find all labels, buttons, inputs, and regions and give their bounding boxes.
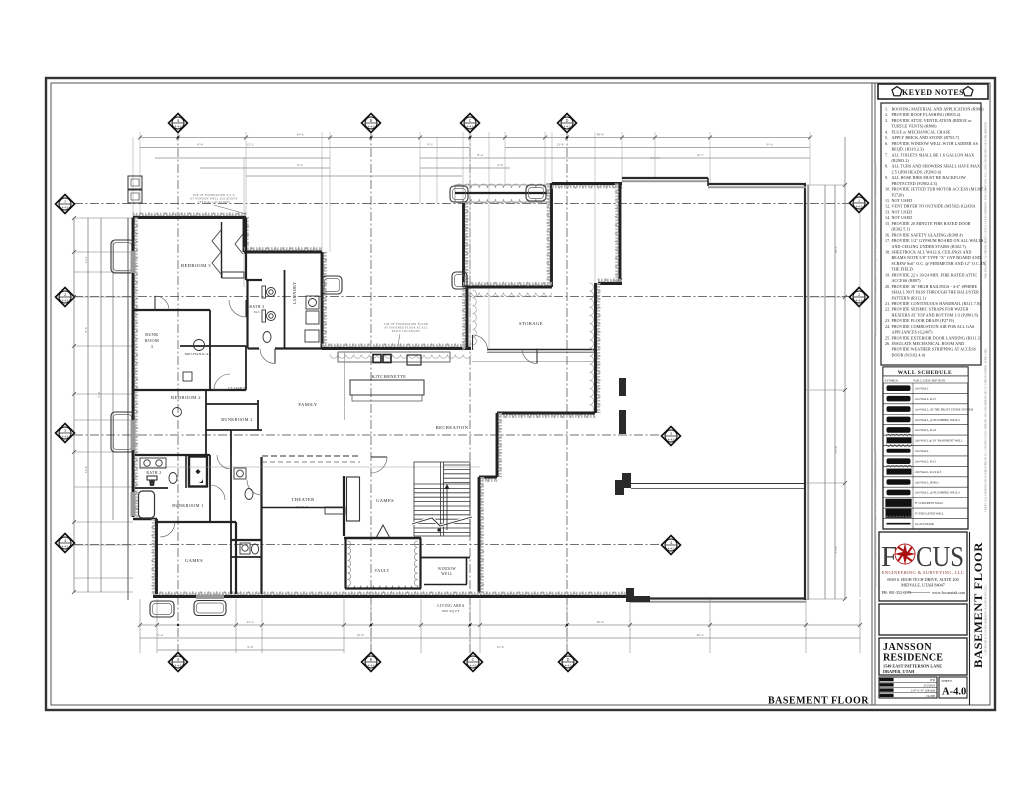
svg-text:2: 2: [858, 293, 860, 297]
svg-text:2x4 WALL: 2x4 WALL: [915, 449, 929, 453]
svg-text:25.: 25.: [885, 335, 890, 340]
svg-text:8" CONCRETE WALL: 8" CONCRETE WALL: [915, 501, 944, 505]
svg-text:INSULATE MECHANICAL ROOM AND: INSULATE MECHANICAL ROOM AND: [892, 341, 965, 346]
svg-text:KEYED NOTES: KEYED NOTES: [902, 88, 964, 97]
laundry fixtures washer dryer: [305, 296, 319, 342]
svg-text:10'-7: 10'-7: [697, 153, 704, 157]
interior bearing wall segments: [619, 378, 626, 396]
sheet outer border frame: [46, 78, 995, 710]
svg-text:3: 3: [670, 432, 672, 436]
wall: hall south: [231, 539, 262, 541]
wall: bedroom3/laundry divider: [245, 218, 247, 281]
svg-text:2.5 GPM HEADS. (P2903.6): 2.5 GPM HEADS. (P2903.6): [892, 169, 942, 174]
wall: laundry north (insulated): [244, 247, 322, 251]
svg-text:SHEET: SHEET: [942, 679, 953, 683]
wall: window well south: [424, 584, 467, 586]
wall: bedroom3 south / bunkroom3 north: [133, 309, 210, 311]
wall: bath2 shower west: [185, 455, 187, 488]
wall: stairs east: [480, 477, 484, 593]
svg-text:4-4.0: 4-4.0: [564, 124, 571, 128]
wall: NE room east: [615, 184, 619, 284]
window games south: [196, 595, 224, 600]
column mid-south: [626, 588, 650, 602]
wall: bath2 north: [135, 454, 210, 456]
door rec door: [536, 349, 538, 364]
svg-text:30'-6: 30'-6: [597, 620, 604, 624]
svg-text:WALL SCHEDULE: WALL SCHEDULE: [898, 370, 952, 376]
svg-text:16.: 16.: [885, 232, 890, 237]
svg-text:2: 2: [64, 293, 66, 297]
svg-text:A: A: [177, 119, 180, 123]
keyed notes pentagon left: [892, 87, 902, 96]
svg-text:SCREW 8x6" O.C. @ PERIMETER AN: SCREW 8x6" O.C. @ PERIMETER AND 12" O.C.…: [892, 261, 986, 266]
svg-text:600 SQ FT: 600 SQ FT: [442, 609, 460, 613]
svg-text:26.: 26.: [885, 341, 890, 346]
svg-text:GAMES: GAMES: [185, 558, 203, 563]
svg-text:4-4.0: 4-4.0: [62, 298, 69, 302]
svg-text:18.: 18.: [885, 250, 890, 255]
beam line unfinished area: [631, 483, 805, 485]
svg-text:ALL HOSE BIBS MUST BE BACKFLOW: ALL HOSE BIBS MUST BE BACKFLOW: [892, 175, 966, 180]
svg-text:CLOSET: CLOSET: [228, 386, 246, 391]
stair break line: [412, 517, 472, 526]
wall schedule table: [883, 367, 968, 529]
mechanical equipment: [173, 340, 205, 417]
grid bubble B: [362, 653, 381, 672]
svg-text:10.: 10.: [885, 187, 890, 192]
chase shaft right of theater: [347, 477, 360, 521]
wall: step to stairs: [479, 478, 497, 482]
svg-text:10'-2: 10'-2: [834, 246, 838, 253]
kitchenette cabinets: [338, 352, 450, 362]
wall: mechanical north: [180, 345, 246, 347]
wall: vault west: [344, 538, 346, 589]
svg-text:ALL TOILETS SHALL BE 1.6 GALLO: ALL TOILETS SHALL BE 1.6 GALLON MAX: [892, 152, 975, 157]
svg-text:4-4.0: 4-4.0: [668, 546, 675, 550]
svg-text:HEATERS AT TOP AND BOTTOM 1/3: HEATERS AT TOP AND BOTTOM 1/3 (P2801.8): [892, 312, 979, 317]
svg-text:22.: 22.: [885, 307, 890, 312]
svg-text:A: A: [177, 658, 180, 662]
svg-text:BEDROOM 2: BEDROOM 2: [171, 395, 201, 400]
info table: [879, 677, 937, 698]
svg-text:PROVIDE COMBUSTION AIR FOR ALL: PROVIDE COMBUSTION AIR FOR ALL GAS: [892, 324, 975, 329]
window west wall 2: [131, 420, 136, 450]
svg-text:BASEMENT FLOOR: BASEMENT FLOOR: [971, 542, 985, 668]
svg-text:20.: 20.: [885, 284, 890, 289]
svg-text:4-4.0: 4-4.0: [467, 124, 474, 128]
wall: south exterior east part (foundation): [630, 597, 806, 599]
door laundry-family door: [274, 349, 276, 364]
theater shelf box: [325, 507, 345, 514]
wall: window well east: [466, 557, 468, 584]
svg-text:PROVIDE SEISMIC STRAPS FOR WAT: PROVIDE SEISMIC STRAPS FOR WATER: [892, 307, 969, 312]
svg-text:www.focusutah.com: www.focusutah.com: [932, 590, 966, 595]
grid bubble A: [169, 114, 188, 133]
wall: games east: [235, 522, 237, 594]
svg-text:PATIO LOCATIONS: PATIO LOCATIONS: [392, 330, 420, 333]
svg-text:PROTECTED (P2902.4.3): PROTECTED (P2902.4.3): [892, 181, 938, 186]
grid bubble 3: [56, 424, 75, 443]
svg-text:RECREATION: RECREATION: [436, 425, 469, 430]
door games2 door: [371, 456, 387, 458]
vault room scalloped walls: [348, 541, 351, 586]
svg-text:PROVIDE WINDOW WELL WITH LADDE: PROVIDE WINDOW WELL WITH LADDER AS: [892, 141, 978, 146]
dimension lines right: [824, 185, 826, 599]
wall: recreation step horizontal: [497, 414, 595, 418]
svg-text:D: D: [567, 658, 570, 662]
window well storage west: [452, 272, 467, 289]
chase bump laundry east: [322, 276, 342, 294]
wall: hall bath south: [231, 556, 262, 558]
wall: mechanical east: [245, 346, 247, 390]
wall: bunkroom1 south / games north: [157, 521, 236, 523]
title block divider: [871, 83, 873, 705]
svg-text:7'-8: 7'-8: [97, 392, 101, 397]
wall: theater interior shelf: [262, 507, 344, 509]
cold room north fuzzy band: [455, 185, 552, 202]
svg-text:F: F: [881, 541, 897, 573]
svg-text:PROVIDE FLOOR DRAIN (P2719): PROVIDE FLOOR DRAIN (P2719): [892, 318, 955, 323]
bath2 fixtures: [140, 458, 177, 484]
grid bubble 4: [56, 534, 75, 553]
svg-text:VAULT: VAULT: [374, 568, 389, 573]
wall: north exterior segments (foundation): [622, 177, 708, 179]
wall: west exterior: [134, 218, 138, 518]
svg-text:JFR: JFR: [930, 678, 936, 682]
svg-text:CUS: CUS: [916, 541, 964, 573]
svg-text:24.: 24.: [885, 324, 890, 329]
keyed notes pentagon right: [963, 87, 973, 96]
svg-text:9'-8: 9'-8: [247, 645, 252, 649]
revision box (empty): [879, 604, 967, 635]
grid bubble C: [464, 653, 483, 672]
svg-text:2.: 2.: [885, 112, 888, 117]
svg-text:5'-4: 5'-4: [157, 633, 162, 637]
wall: bunkroom2 south: [206, 429, 262, 431]
wall: bath3 west: [246, 280, 248, 348]
stair arrow: [446, 486, 448, 530]
svg-text:STORAGE: STORAGE: [519, 321, 543, 326]
svg-text:12'-2: 12'-2: [247, 143, 254, 147]
svg-text:2x6 WALL @ 24" BASEMENT WALL: 2x6 WALL @ 24" BASEMENT WALL: [915, 439, 963, 443]
window well bedroom2: [111, 412, 134, 452]
svg-text:SHALL NOT PASS THROUGH THE BAL: SHALL NOT PASS THROUGH THE BALUSTER: [892, 290, 980, 295]
svg-text:13.: 13.: [885, 210, 890, 215]
vertical sheet title strip: [969, 532, 971, 705]
sheet number box: [939, 677, 967, 698]
svg-text:4-4.0: 4-4.0: [368, 663, 375, 667]
svg-text:JANSSON: JANSSON: [883, 642, 932, 653]
svg-text:DRAPER, UTAH: DRAPER, UTAH: [883, 669, 915, 674]
svg-text:12'-6: 12'-6: [497, 645, 504, 649]
svg-text:GAMES: GAMES: [376, 498, 394, 503]
closet walls bedroom3: [221, 222, 223, 278]
svg-text:THE FIELD.: THE FIELD.: [892, 267, 914, 272]
svg-text:THIS DRAWING IS THE PROPERTY O: THIS DRAWING IS THE PROPERTY OF FOCUS EN…: [985, 121, 988, 279]
svg-text:BEAMS NOTE 5/8" TYPE "X" GYP B: BEAMS NOTE 5/8" TYPE "X" GYP BOARD AND: [892, 255, 981, 260]
svg-text:1.: 1.: [885, 107, 888, 112]
svg-text:ACCESS (R807): ACCESS (R807): [892, 278, 922, 283]
svg-text:NOT USED: NOT USED: [892, 210, 913, 215]
svg-text:15.: 15.: [885, 221, 890, 226]
svg-text:22'-4: 22'-4: [247, 620, 254, 624]
svg-text:4: 4: [670, 541, 672, 545]
svg-text:11'-2: 11'-2: [84, 256, 88, 263]
grid bubble D: [559, 653, 578, 672]
bath3 fixtures: [262, 286, 276, 343]
svg-text:NOT USED: NOT USED: [892, 198, 913, 203]
svg-text:3.: 3.: [885, 118, 888, 123]
svg-text:9x5: 9x5: [254, 310, 260, 314]
svg-text:9'-6: 9'-6: [84, 327, 88, 332]
svg-text:LAUNDRY: LAUNDRY: [292, 281, 297, 304]
svg-text:PROVIDE CONTINUOUS HANDRAIL (R: PROVIDE CONTINUOUS HANDRAIL (R311.7.8): [892, 301, 982, 306]
svg-text:19-008: 19-008: [926, 694, 935, 698]
door games door: [160, 521, 175, 523]
svg-text:4-4.0: 4-4.0: [565, 663, 572, 667]
sheet inner border frame: [51, 83, 990, 705]
grid line vertical B x=371: [370, 132, 372, 653]
svg-text:ROOFING MATERIAL AND APPLICATI: ROOFING MATERIAL AND APPLICATION (R905): [892, 107, 985, 112]
svg-text:A-4.0: A-4.0: [942, 687, 966, 698]
svg-text:P2720): P2720): [892, 192, 905, 197]
cold room south wall: [463, 282, 552, 286]
svg-text:VERIFY ALL DIMENSIONS IN FIELD: VERIFY ALL DIMENSIONS IN FIELD PRIOR TO …: [985, 348, 988, 513]
svg-text:MECHANICAL: MECHANICAL: [185, 352, 212, 356]
svg-text:4-4.0: 4-4.0: [62, 544, 69, 548]
svg-text:PROVIDE WEATHER STRIPPING AT A: PROVIDE WEATHER STRIPPING AT ACCESS: [892, 347, 977, 352]
door bunkroom1: [209, 485, 211, 500]
svg-text:4: 4: [64, 539, 66, 543]
svg-text:BUNKROOM 2: BUNKROOM 2: [221, 417, 253, 422]
wall: NE room south jog: [598, 279, 622, 283]
shower bath2 stall: [189, 457, 207, 487]
svg-text:PROVIDE 1/2" GYPSUM BOARD ON A: PROVIDE 1/2" GYPSUM BOARD ON ALL WALLS: [892, 238, 984, 243]
wall: jog to games west: [133, 518, 157, 521]
svg-text:FLUE or MECHANICAL CHASE: FLUE or MECHANICAL CHASE: [892, 129, 951, 134]
svg-text:3: 3: [64, 429, 66, 433]
keyed notes list: [885, 107, 986, 358]
svg-text:24'-6: 24'-6: [297, 133, 304, 137]
grid line vertical C x=470: [469, 132, 471, 653]
grid bubble 3: [662, 427, 681, 446]
svg-text:7.: 7.: [885, 152, 888, 157]
svg-text:21'x14': 21'x14': [296, 505, 308, 509]
svg-text:BATH 2: BATH 2: [146, 471, 161, 475]
svg-text:PROVIDE 36" HIGH RAILINGS - 4-: PROVIDE 36" HIGH RAILINGS - 4-4" SPHERE: [892, 284, 978, 289]
dimension ticks: [72, 136, 862, 628]
wall: bath3/laundry divider: [284, 270, 286, 348]
svg-text:PROVIDE SAFETY GLAZING (R308.4: PROVIDE SAFETY GLAZING (R308.4): [892, 232, 964, 237]
svg-text:REQD. (R310.2.3): REQD. (R310.2.3): [892, 147, 925, 152]
svg-text:12.: 12.: [885, 204, 890, 209]
svg-text:ALL TUBS AND SHOWERS SHALL HAV: ALL TUBS AND SHOWERS SHALL HAVE MAX: [892, 164, 981, 169]
focus logo box: [879, 532, 967, 601]
project title box: [879, 638, 967, 675]
grid line vertical A x=178: [177, 132, 179, 653]
tub/window seat bunkroom1: [139, 491, 155, 518]
svg-text:9.: 9.: [885, 175, 888, 180]
door theater: [261, 480, 263, 495]
wall: bunkroom3 east: [209, 310, 211, 390]
svg-text:APPLY BRICK AND STONE (R703.7): APPLY BRICK AND STONE (R703.7): [892, 135, 960, 140]
svg-text:4-4.0: 4-4.0: [470, 663, 477, 667]
grid line horizontal 4 y=545: [74, 544, 662, 546]
svg-text:21'-6: 21'-6: [834, 446, 838, 453]
window well bedroom3: [111, 240, 134, 273]
svg-text:COPYRIGHT FOCUS ENGINEERING &: COPYRIGHT FOCUS ENGINEERING & SURVEYING …: [985, 584, 988, 655]
svg-text:8.: 8.: [885, 164, 888, 169]
svg-text:THEATER: THEATER: [291, 497, 315, 502]
svg-text:D: D: [566, 119, 569, 123]
grid bubble 2: [850, 288, 869, 307]
closet bifold chevrons bedroom3: [212, 230, 221, 274]
grid line horizontal 1 y=204: [74, 203, 850, 205]
door bath2 door: [230, 455, 232, 469]
svg-text:8" INSULATED WALL: 8" INSULATED WALL: [915, 512, 944, 516]
wall: laundry south east stub: [275, 347, 322, 349]
svg-text:21.: 21.: [885, 301, 890, 306]
storage west wall: [462, 287, 466, 350]
svg-text:BEDROOM 3: BEDROOM 3: [181, 263, 211, 268]
svg-text:LIVING AREA: LIVING AREA: [437, 604, 464, 608]
wall: laundry east: [323, 252, 327, 348]
wall schedule title: [883, 367, 968, 376]
svg-text:TYPICAL LOCATIONS: TYPICAL LOCATIONS: [198, 201, 231, 204]
wall: vault east: [419, 538, 421, 589]
svg-text:4x PERSONS IN FRONT END TO ENG: 4x PERSONS IN FRONT END TO ENGINEER AND …: [875, 163, 878, 336]
grid bubble B: [362, 114, 381, 133]
svg-text:BATH 3: BATH 3: [249, 305, 264, 309]
svg-text:BASEMENT FLOOR: BASEMENT FLOOR: [768, 696, 869, 707]
dimension lines bottom: [140, 624, 860, 626]
grid bubble 1: [850, 194, 869, 213]
svg-text:APPLIANCES (G2407): APPLIANCES (G2407): [892, 330, 934, 335]
wall: bath3 step: [246, 279, 262, 281]
svg-text:BUNKROOM 1: BUNKROOM 1: [172, 503, 204, 508]
svg-text:3: 3: [151, 344, 154, 349]
keyed notes body box: [881, 103, 981, 365]
svg-text:6'-2: 6'-2: [297, 163, 302, 167]
svg-text:PROVIDE EXTERIOR DOOR LANDING: PROVIDE EXTERIOR DOOR LANDING (R311.3): [892, 335, 982, 340]
wall: vault south: [345, 587, 421, 589]
grid line horizontal 3 y=436: [74, 434, 662, 436]
svg-text:FAMILY: FAMILY: [298, 402, 317, 407]
wall: theater north soffit (dashed): [262, 455, 360, 457]
svg-text:DOOR (N1102.4.4): DOOR (N1102.4.4): [892, 353, 926, 358]
grid line vertical D x=567: [566, 132, 568, 653]
staircase: [414, 462, 470, 536]
svg-text:AND CEILING UNDER STAIRS (R302: AND CEILING UNDER STAIRS (R302.7): [892, 244, 967, 249]
svg-text:4-4.0: 4-4.0: [668, 437, 675, 441]
grid bubble 2: [56, 288, 75, 307]
svg-text:4-4.0: 4-4.0: [368, 124, 375, 128]
wall schedule rows: [883, 392, 968, 394]
svg-text:9'-2: 9'-2: [427, 143, 432, 147]
wall: south exterior insulated: [153, 592, 630, 596]
grid bubble 4: [662, 536, 681, 555]
wall: bedroom wing east upper: [245, 218, 249, 253]
svg-text:TURTLE VENTS) (R806): TURTLE VENTS) (R806): [892, 124, 938, 129]
window well north 1: [450, 186, 468, 202]
svg-text:GLASS DOOR: GLASS DOOR: [915, 522, 934, 526]
svg-text:PROVIDE JETTED TUB MOTOR ACCES: PROVIDE JETTED TUB MOTOR ACCESS (M1307.1: [892, 187, 987, 192]
svg-text:PROVIDE ATTIC VENTILATION (RID: PROVIDE ATTIC VENTILATION (RIDGE or: [892, 118, 973, 123]
svg-text:16'-8: 16'-8: [357, 633, 364, 637]
svg-text:4-4.0: 4-4.0: [175, 124, 182, 128]
svg-text:6.: 6.: [885, 141, 888, 146]
svg-text:KITCHENETTE: KITCHENETTE: [372, 374, 406, 379]
wall: window well north: [421, 557, 470, 559]
svg-text:PROVIDE ROOF FLASHING (R903.2): PROVIDE ROOF FLASHING (R903.2): [892, 112, 961, 117]
svg-text:SYMBOL: SYMBOL: [885, 379, 899, 383]
window well south: [194, 601, 226, 616]
wall: kitchenette north-west segment: [322, 344, 471, 348]
svg-text:4'-8: 4'-8: [497, 163, 502, 167]
wall: bedroom2 north: [133, 389, 246, 391]
svg-text:1: 1: [64, 200, 66, 204]
svg-text:BUNK: BUNK: [145, 332, 158, 337]
wall: laundry south west stub: [248, 347, 260, 349]
svg-text:PROVIDE 22 x 30/24 MIN. FIRE R: PROVIDE 22 x 30/24 MIN. FIRE RATED ATTIC: [892, 272, 978, 277]
svg-text:1/4"=1'-0" (24x36): 1/4"=1'-0" (24x36): [911, 689, 935, 693]
svg-text:4-4.0: 4-4.0: [62, 205, 69, 209]
svg-text:ALL CONSTRUCTION SHALL CONFORM: ALL CONSTRUCTION SHALL CONFORM TO THE CU…: [875, 452, 878, 587]
svg-text:WALL DESCRIPTION: WALL DESCRIPTION: [913, 379, 946, 383]
door bunkroom3 door: [154, 296, 156, 310]
wall: bedroom wing north (insulated): [133, 213, 246, 217]
svg-text:RESIDENCE: RESIDENCE: [883, 653, 943, 664]
grid bubble C: [461, 114, 480, 133]
svg-text:4-4.0: 4-4.0: [62, 434, 69, 438]
svg-text:PH: 801-352-0075: PH: 801-352-0075: [882, 590, 912, 595]
dimension lines left: [73, 218, 75, 592]
wall: theater west: [260, 457, 262, 594]
svg-text:17.: 17.: [885, 238, 890, 243]
window well squares top-left: [128, 176, 142, 189]
door bedroom3: [245, 300, 247, 317]
wall: games west (insulated): [152, 519, 156, 594]
svg-text:11.: 11.: [885, 198, 890, 203]
wall: bunkroom1 west: [209, 455, 211, 522]
svg-text:13'-4: 13'-4: [84, 466, 88, 473]
svg-text:5.: 5.: [885, 135, 888, 140]
svg-text:(R302.5.1): (R302.5.1): [892, 227, 911, 232]
svg-text:2x4 WALL: 2x4 WALL: [915, 387, 929, 391]
door bedroom2: [214, 389, 230, 391]
svg-text:WINDOW: WINDOW: [438, 567, 456, 571]
wall: bath2 south: [135, 487, 168, 489]
wall: storage-recreation divider: [597, 283, 601, 413]
svg-text:PROVIDE 20 MINUTE FIRE RATED D: PROVIDE 20 MINUTE FIRE RATED DOOR: [892, 221, 971, 226]
svg-text:4-4.0: 4-4.0: [175, 663, 182, 667]
svg-text:11'-0: 11'-0: [834, 546, 838, 553]
svg-text:23'-8: 23'-8: [557, 143, 564, 147]
wall: recreation step vertical: [498, 413, 502, 477]
svg-text:3/5/2019: 3/5/2019: [924, 683, 936, 687]
grid bubble D: [558, 114, 577, 133]
svg-text:19.: 19.: [885, 272, 890, 277]
svg-text:48'-4: 48'-4: [597, 133, 604, 137]
wall: hall west: [230, 430, 232, 594]
wall: closet south: [206, 403, 258, 405]
svg-text:4-4.0: 4-4.0: [856, 298, 863, 302]
door storage door: [472, 335, 474, 350]
vault door leaf: [376, 525, 390, 538]
dim line under storage: [472, 361, 595, 363]
window well north 2: [526, 185, 546, 201]
svg-text:NOT USED: NOT USED: [892, 215, 913, 220]
